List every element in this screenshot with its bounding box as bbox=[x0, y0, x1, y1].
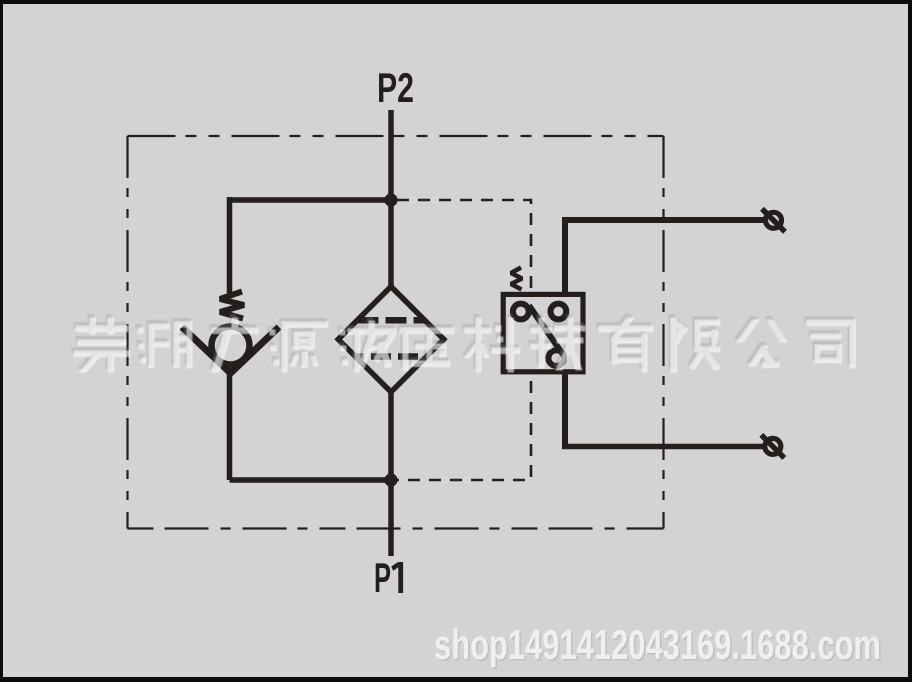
wire right assembly upper vertical bbox=[562, 220, 568, 294]
char ya1 bbox=[400, 328, 454, 370]
spring of check valve bbox=[220, 292, 244, 319]
wire left branch lower vertical bbox=[227, 370, 233, 480]
enclosure dash-dot boundary box top edge bbox=[128, 135, 664, 137]
valve selector lever bbox=[529, 306, 563, 355]
wire P1 vertical bbox=[388, 478, 394, 556]
char ji4 bbox=[531, 318, 585, 370]
valve port circle bottom bbox=[548, 350, 564, 366]
char gong1 bbox=[737, 320, 787, 368]
valve block body (gauge isolator) bbox=[503, 294, 583, 371]
filter diamond body bbox=[338, 287, 444, 393]
poppet ball of check valve bbox=[212, 327, 250, 365]
wire lower test-point horizontal bbox=[562, 444, 763, 450]
svg-text:shop1491412043169.1688.com: shop1491412043169.1688.com bbox=[434, 621, 881, 668]
char ye4 bbox=[340, 321, 396, 372]
junction node at P2 branch bbox=[384, 193, 397, 206]
char hu2 bbox=[138, 322, 192, 368]
wire left branch upper vertical bbox=[227, 197, 233, 293]
test point M1 diagonal bbox=[762, 209, 785, 232]
wire upper test-point horizontal bbox=[562, 217, 764, 223]
wire top branch horizontal bbox=[230, 197, 392, 203]
char wu1 bbox=[74, 318, 130, 372]
test point M2 diagonal bbox=[761, 435, 784, 458]
enclosure dash-dot boundary box bottom edge bbox=[128, 527, 664, 529]
enclosure dash-dot boundary box right edge bbox=[662, 136, 664, 529]
frame (decorative) bbox=[0, 0, 912, 4]
char ke1 bbox=[465, 318, 520, 372]
seat of check valve bbox=[182, 327, 279, 373]
char si1 bbox=[807, 320, 856, 368]
inner dashed sub-assembly box bbox=[397, 200, 531, 480]
junction node at P1 branch bbox=[384, 473, 397, 486]
wire P2 vertical bbox=[388, 110, 394, 202]
char yuan2 bbox=[270, 322, 328, 372]
wire right assembly lower vertical bbox=[562, 372, 568, 447]
char xian4 bbox=[671, 318, 720, 372]
char you3 bbox=[599, 318, 653, 372]
svg-text:P2: P2 bbox=[377, 64, 414, 111]
test point M1 circle bbox=[766, 212, 782, 228]
filter element dashed lines bbox=[354, 320, 428, 356]
svg-text:P: P bbox=[374, 554, 391, 601]
wire filter lower vertical bbox=[388, 390, 394, 480]
enclosure dash-dot boundary box left edge bbox=[126, 136, 128, 529]
valve port circle left bbox=[513, 304, 529, 320]
test point M2 circle bbox=[765, 438, 781, 454]
valve block spring bbox=[511, 268, 522, 290]
valve port circle right bbox=[551, 304, 567, 320]
wire filter upper vertical bbox=[388, 197, 394, 290]
char guang3 bbox=[212, 318, 258, 372]
wire bottom branch horizontal bbox=[230, 477, 392, 483]
